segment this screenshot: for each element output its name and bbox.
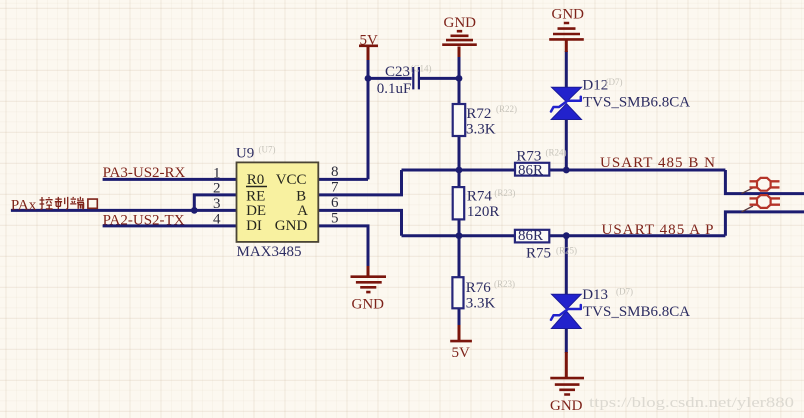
svg-text:ttps://blog.csdn.net/yler880: ttps://blog.csdn.net/yler880 xyxy=(589,395,794,411)
svg-text:(R22): (R22) xyxy=(496,104,517,114)
svg-text:GND: GND xyxy=(552,7,585,23)
svg-text:R75: R75 xyxy=(526,246,551,262)
svg-text:(U7): (U7) xyxy=(259,145,276,155)
svg-text:USART 485 A P: USART 485 A P xyxy=(602,222,714,238)
svg-text:3.3K: 3.3K xyxy=(466,122,496,138)
svg-text:(R23): (R23) xyxy=(494,279,515,289)
svg-text:VCC: VCC xyxy=(276,172,307,188)
svg-text:TVS_SMB6.8CA: TVS_SMB6.8CA xyxy=(583,304,690,320)
svg-text:0.1uF: 0.1uF xyxy=(377,81,412,97)
svg-text:B: B xyxy=(296,189,306,205)
svg-text:(R25): (R25) xyxy=(556,246,577,256)
svg-text:GND: GND xyxy=(275,218,308,234)
svg-text:5V: 5V xyxy=(360,33,379,49)
svg-text:120R: 120R xyxy=(467,204,500,220)
svg-text:DI: DI xyxy=(246,218,262,234)
svg-text:U9: U9 xyxy=(236,146,254,162)
svg-text:R73: R73 xyxy=(516,149,541,165)
svg-text:D12: D12 xyxy=(582,78,608,94)
svg-text:TVS_SMB6.8CA: TVS_SMB6.8CA xyxy=(583,95,690,111)
svg-text:(R24): (R24) xyxy=(546,148,567,158)
svg-text:PAx: PAx xyxy=(11,197,37,213)
svg-text:RE: RE xyxy=(246,189,265,205)
svg-text:DE: DE xyxy=(246,203,266,219)
svg-text:USART 485 B N: USART 485 B N xyxy=(600,155,715,171)
svg-text:86R: 86R xyxy=(518,163,543,179)
svg-text:5: 5 xyxy=(331,210,339,226)
svg-text:(D7): (D7) xyxy=(606,77,623,87)
svg-text:6: 6 xyxy=(331,195,339,211)
svg-text:A: A xyxy=(297,203,308,219)
svg-text:R76: R76 xyxy=(466,280,492,296)
svg-text:C23: C23 xyxy=(385,64,410,80)
svg-text:3: 3 xyxy=(213,196,221,212)
svg-text:R72: R72 xyxy=(466,106,491,122)
svg-text:4: 4 xyxy=(213,211,221,227)
svg-text:7: 7 xyxy=(331,179,339,195)
svg-text:GND: GND xyxy=(550,398,583,414)
svg-text:2: 2 xyxy=(213,181,221,197)
svg-text:D13: D13 xyxy=(582,287,608,303)
svg-text:(D7): (D7) xyxy=(616,287,633,297)
svg-text:GND: GND xyxy=(444,15,477,31)
svg-text:3.3K: 3.3K xyxy=(466,295,496,311)
svg-text:(C14): (C14) xyxy=(411,64,432,74)
svg-text:8: 8 xyxy=(331,164,339,180)
svg-text:(R23): (R23) xyxy=(494,188,515,198)
svg-text:5V: 5V xyxy=(452,345,471,361)
svg-text:1: 1 xyxy=(213,165,221,181)
svg-text:R74: R74 xyxy=(467,189,493,205)
svg-text:86R: 86R xyxy=(518,228,543,244)
svg-text:MAX3485: MAX3485 xyxy=(237,244,302,260)
svg-text:PA3-US2-RX: PA3-US2-RX xyxy=(103,165,186,181)
svg-text:PA2-US2-TX: PA2-US2-TX xyxy=(103,212,185,228)
svg-text:GND: GND xyxy=(352,296,385,312)
